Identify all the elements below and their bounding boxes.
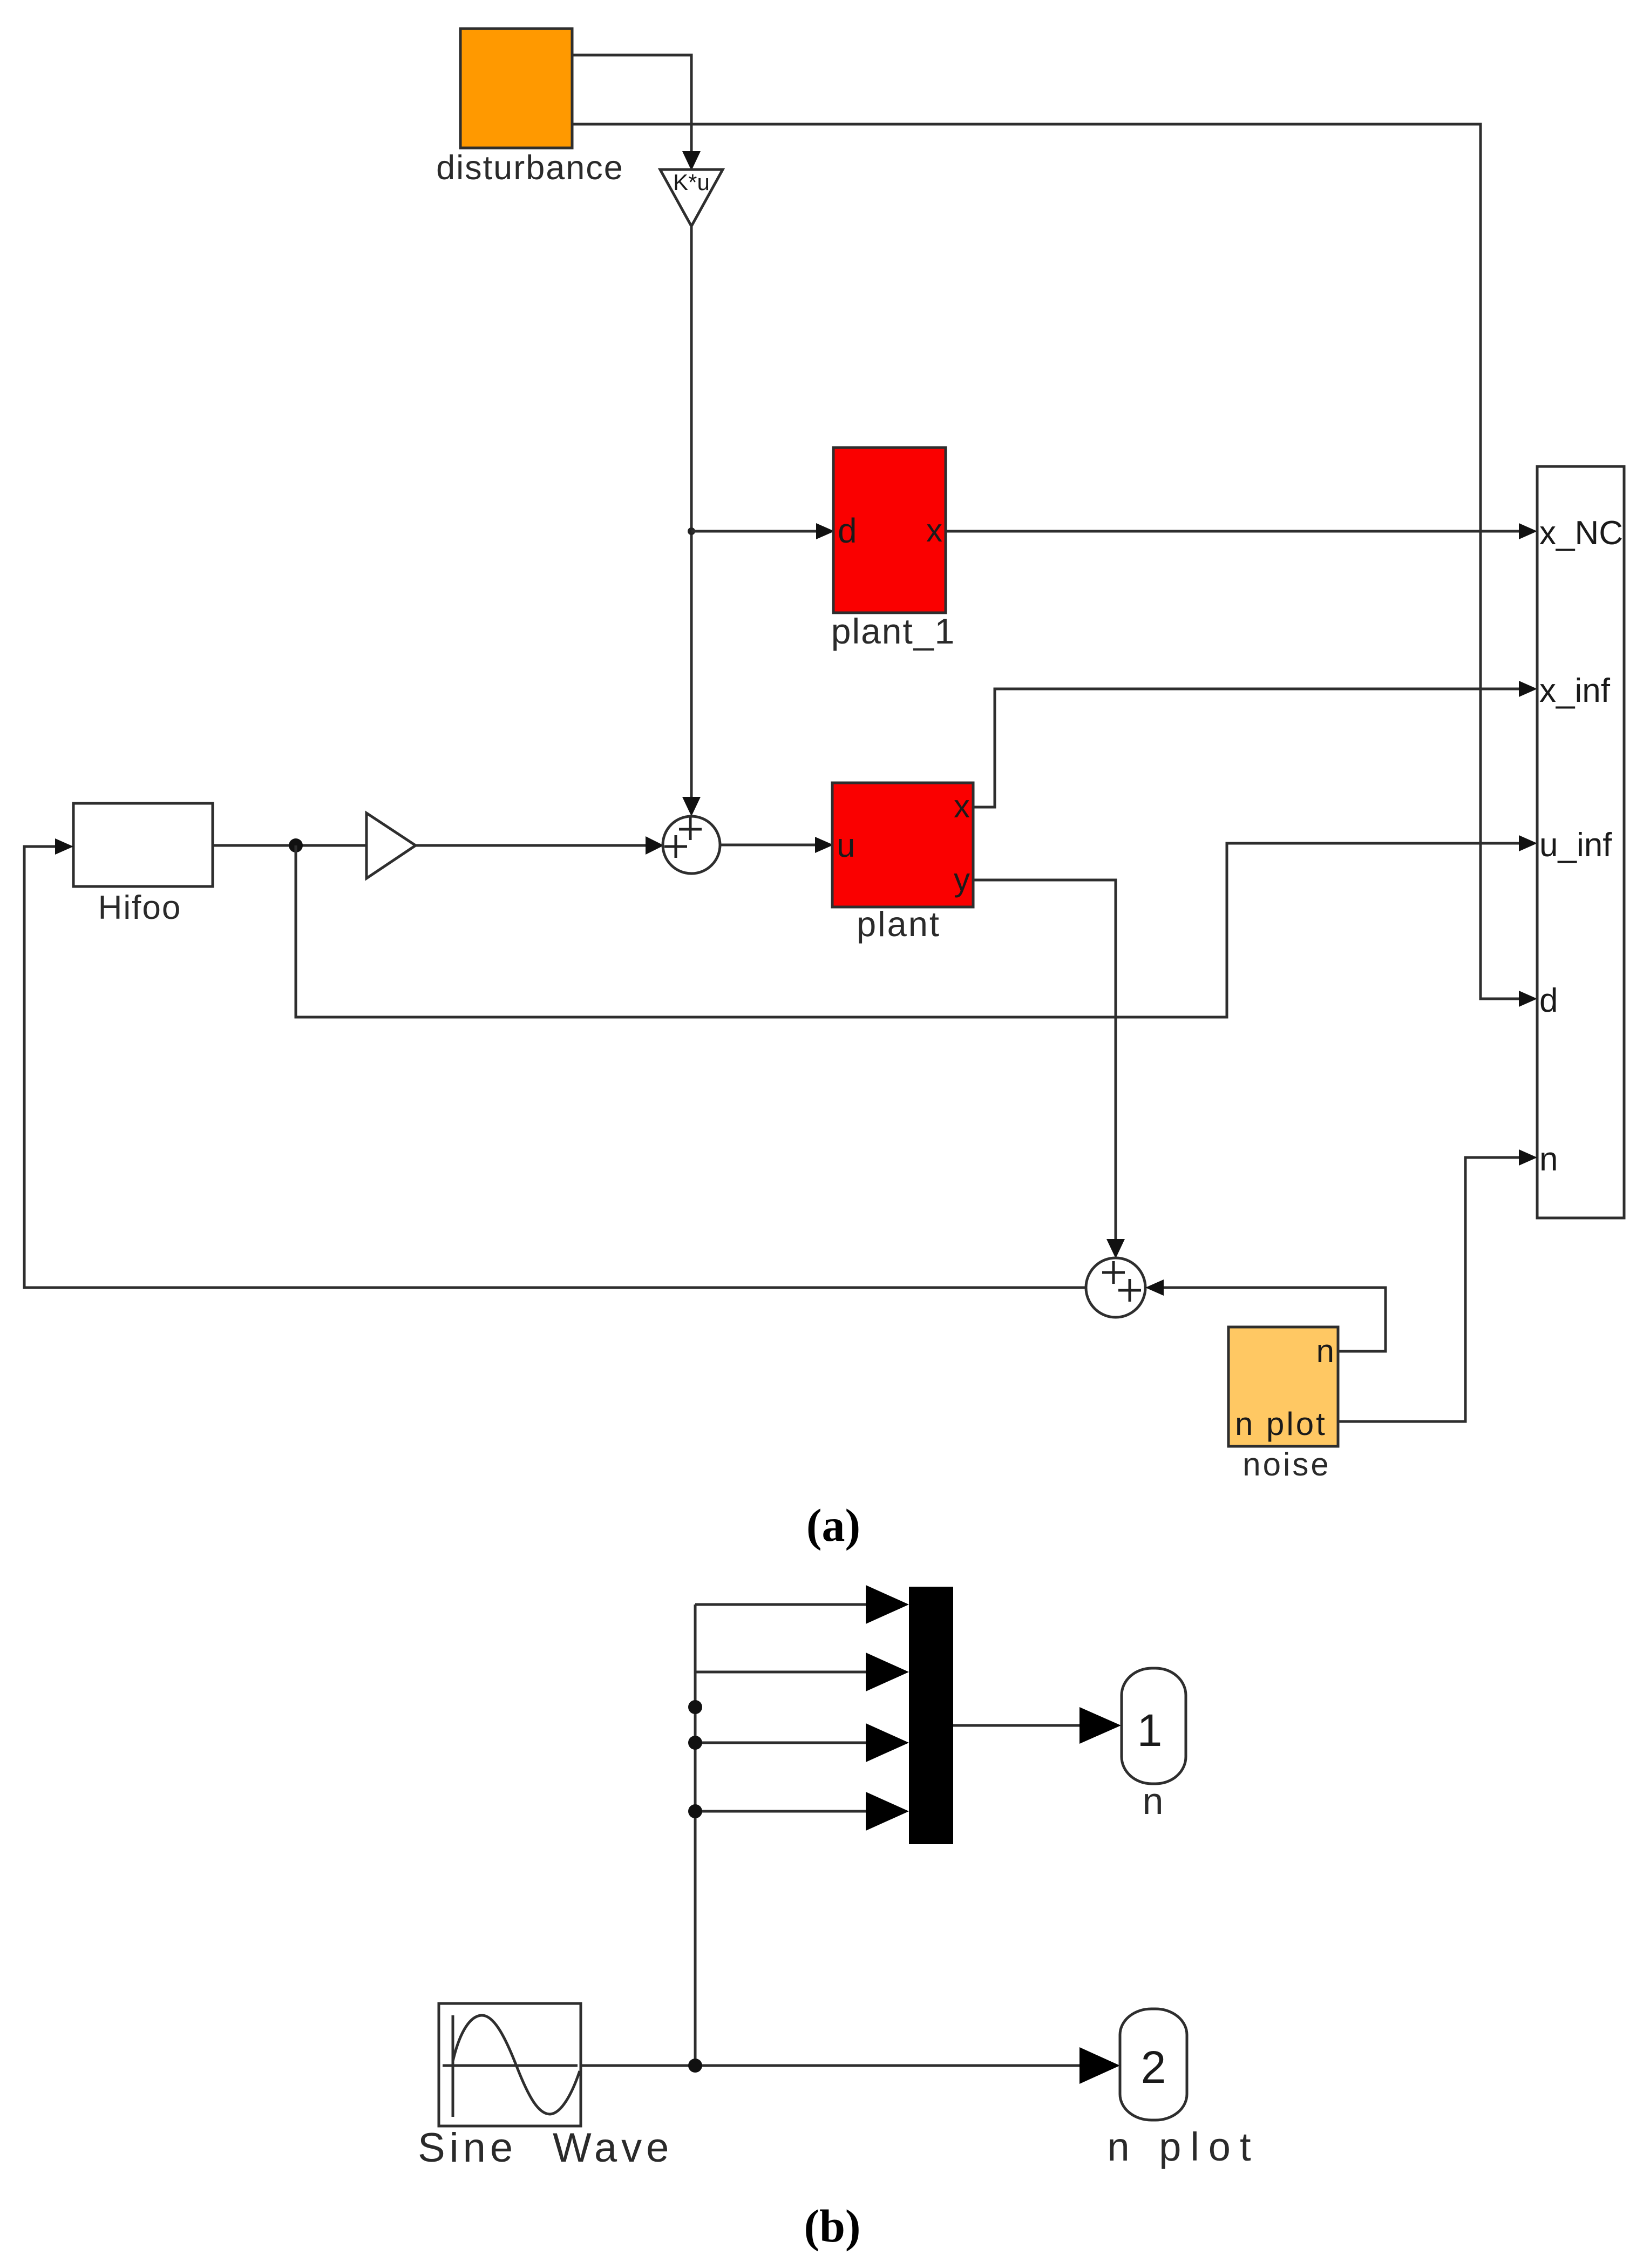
block Sine Wave [439, 2003, 581, 2126]
wire disturbance to gain K*u [572, 55, 701, 171]
wire branch to plant_1 d input [691, 523, 834, 539]
block Hifoo [73, 803, 213, 886]
block disturbance [460, 29, 572, 148]
block noise [1228, 1327, 1338, 1446]
wire gain to sum S1 [416, 836, 664, 855]
wire mux input 1 (b) [695, 1585, 909, 1624]
svg-text:Wave: Wave [553, 2125, 673, 2171]
svg-text:n plot: n plot [1107, 2124, 1260, 2169]
node dot sine [688, 2059, 702, 2073]
wire disturbance to mux d input [572, 124, 1537, 1007]
node branch to plant_1 [688, 527, 695, 535]
block plant_1 [833, 448, 946, 613]
block plant [832, 783, 973, 907]
svg-text:n: n [1143, 1780, 1164, 1822]
wire plant_1 x to mux x_NC [946, 523, 1537, 539]
wire sine to outport 2 [581, 2047, 1120, 2084]
svg-text:x_NC: x_NC [1539, 514, 1623, 552]
wire junction u to mux u_inf [296, 835, 1537, 1017]
bus vertical wire (b) [694, 1604, 697, 2066]
svg-text:2: 2 [1141, 2042, 1166, 2093]
svg-text:disturbance: disturbance [436, 149, 624, 187]
svg-text:x: x [954, 788, 970, 824]
svg-text:x_inf: x_inf [1539, 672, 1611, 709]
svg-text:K*u: K*u [673, 170, 710, 195]
wire plant x to mux x_inf [973, 681, 1537, 807]
svg-text:n plot: n plot [1235, 1406, 1327, 1442]
outport 1 [1122, 1668, 1186, 1784]
node dot b1 [688, 1700, 702, 1714]
gain K*u [660, 170, 723, 226]
wire plant y to sum S2 [973, 880, 1125, 1258]
svg-text:noise: noise [1242, 1446, 1330, 1482]
svg-text:(b): (b) [804, 2200, 860, 2252]
wire mux input 4 (b) [695, 1792, 909, 1831]
mux output block [1537, 466, 1624, 1218]
wire gain K*u to sum S1 [682, 226, 701, 816]
wire mux input 2 (b) [695, 1653, 909, 1691]
svg-text:plant_1: plant_1 [831, 611, 956, 651]
svg-text:n: n [1539, 1141, 1558, 1178]
node dot b2 [688, 1736, 702, 1750]
svg-text:u: u [837, 827, 855, 864]
sum S1 [663, 816, 720, 874]
svg-text:n: n [1316, 1333, 1334, 1369]
svg-text:d: d [838, 511, 857, 550]
wire mux input 3 (b) [695, 1723, 909, 1762]
label Sine Wave [418, 2125, 673, 2171]
wire noise n plot to mux n [1338, 1149, 1537, 1421]
svg-text:(a): (a) [806, 1499, 860, 1551]
gain triangle [366, 813, 416, 878]
sum S2 [1086, 1258, 1145, 1317]
svg-text:plant: plant [857, 904, 941, 944]
wire mux to outport 1 [953, 1707, 1121, 1744]
svg-text:Sine: Sine [418, 2125, 517, 2171]
wire Hifoo output to gain [213, 844, 366, 847]
svg-text:u_inf: u_inf [1539, 827, 1612, 864]
wire sum S1 to plant u [720, 837, 833, 853]
outport 2 [1120, 2009, 1187, 2120]
wire noise n to sum S2 [1145, 1279, 1386, 1351]
wire sum S2 to Hifoo input [24, 838, 1086, 1288]
svg-text:Hifoo: Hifoo [98, 889, 182, 926]
svg-text:x: x [926, 512, 942, 549]
mux bar (b) [909, 1587, 953, 1844]
svg-text:y: y [954, 862, 970, 898]
svg-text:d: d [1539, 982, 1558, 1019]
svg-text:1: 1 [1137, 1705, 1163, 1756]
node dot b3 [688, 1804, 702, 1818]
node junction u [289, 838, 303, 852]
